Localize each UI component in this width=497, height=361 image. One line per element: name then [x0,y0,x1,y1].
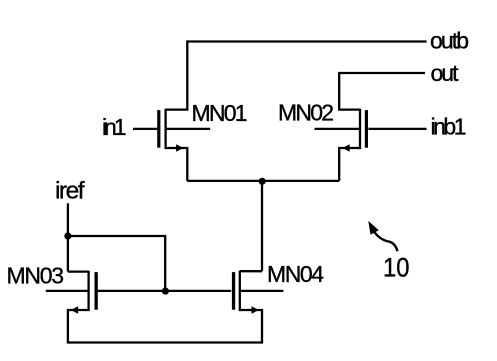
svg-text:10: 10 [383,253,410,283]
svg-text:iref: iref [55,178,85,205]
svg-text:out: out [431,60,460,86]
svg-text:outb: outb [430,28,469,54]
svg-text:MN03: MN03 [7,262,65,288]
svg-text:inb1: inb1 [431,114,467,140]
svg-text:MN02: MN02 [278,99,334,125]
svg-text:MN04: MN04 [267,261,324,287]
svg-text:in1: in1 [102,114,127,140]
svg-text:MN01: MN01 [192,100,248,126]
